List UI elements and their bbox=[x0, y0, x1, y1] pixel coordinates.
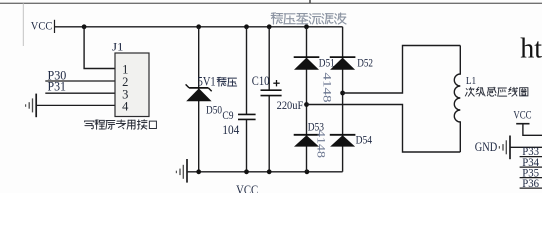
node dot rail/D53 bottom bbox=[305, 169, 310, 174]
ground (left of J1) bbox=[26, 94, 37, 118]
svg-text:104: 104 bbox=[222, 123, 240, 137]
node dot rail/D50 bottom bbox=[196, 169, 201, 174]
inductor L1 coil bbox=[454, 46, 460, 153]
wire D50 branch bbox=[198, 27, 200, 172]
svg-text:C9: C9 bbox=[222, 108, 233, 122]
node dot rail/C10 bottom bbox=[267, 169, 272, 174]
svg-text:GND: GND bbox=[475, 140, 498, 154]
svg-text:4: 4 bbox=[122, 100, 129, 114]
wire VCC top rail bbox=[55, 26, 343, 28]
bottom rail wire bbox=[187, 171, 343, 173]
svg-text:D54: D54 bbox=[356, 133, 373, 147]
svg-text:VCC: VCC bbox=[236, 182, 258, 193]
section title 稳压整流滤波 (gray) bbox=[271, 13, 346, 24]
border frame (decorative, top of crop) bbox=[0, 3, 542, 4]
connector J1 bbox=[115, 53, 149, 117]
diode D53 bbox=[294, 135, 320, 147]
wire D52 branch bbox=[342, 27, 344, 172]
node dot bridge out (D52) bbox=[340, 91, 345, 96]
wire P34 bbox=[520, 166, 542, 168]
svg-text:VCC: VCC bbox=[31, 18, 53, 32]
node dot rail/D51 bbox=[304, 24, 309, 29]
wire P30 to J1 pin 2 bbox=[45, 80, 115, 82]
wire P33 bbox=[520, 156, 542, 158]
diode D51 bbox=[294, 57, 320, 70]
svg-text:4148: 4148 bbox=[315, 130, 329, 158]
diode D52 bbox=[330, 57, 356, 70]
svg-text:C10: C10 bbox=[252, 74, 270, 88]
svg-text:220uF: 220uF bbox=[277, 98, 304, 112]
wire P36 bbox=[520, 187, 542, 189]
svg-text:5V1: 5V1 bbox=[198, 75, 216, 89]
wire ground to J1 pin 4 bbox=[36, 104, 115, 106]
node dot rail/C9 bbox=[244, 24, 249, 29]
ground (bottom rail) bbox=[176, 159, 187, 183]
wire bridge to coil bottom bbox=[307, 105, 461, 153]
node dot VCC/J1 bbox=[82, 24, 87, 29]
svg-text:P31: P31 bbox=[48, 79, 67, 93]
caption 写程序专用接口 bbox=[85, 120, 157, 130]
wire C9 branch (bottom) bbox=[246, 120, 248, 172]
wire P31 to J1 pin 3 bbox=[45, 92, 115, 94]
svg-text:VCC: VCC bbox=[513, 108, 531, 122]
diode D54 bbox=[330, 135, 356, 147]
L1 label 次级感应线圈 bbox=[465, 87, 528, 96]
capacitor C10 (polarized) bbox=[261, 90, 282, 95]
node dot bridge out (D51) bbox=[304, 102, 309, 107]
wire D51 branch bbox=[306, 27, 308, 172]
svg-text:L1: L1 bbox=[466, 76, 476, 87]
svg-text:D50: D50 bbox=[206, 104, 222, 116]
node dot rail/C9 bottom bbox=[244, 169, 249, 174]
node dot rail/D50 bbox=[196, 24, 201, 29]
svg-text:http: http bbox=[520, 34, 542, 65]
svg-text:D52: D52 bbox=[357, 56, 373, 70]
wire C10 branch (top) bbox=[268, 27, 270, 90]
svg-text:4148: 4148 bbox=[321, 73, 335, 103]
wire bridge to coil top bbox=[343, 46, 461, 94]
wire VCC to J1 pin 1 bbox=[84, 27, 115, 69]
VCC port bar bbox=[54, 20, 56, 33]
C10 plus sign bbox=[273, 80, 279, 86]
wire P35 bbox=[520, 177, 542, 179]
wire C9 branch (top) bbox=[246, 27, 248, 115]
wire C10 branch (bottom) bbox=[268, 96, 270, 172]
svg-text:J1: J1 bbox=[112, 40, 124, 54]
capacitor C9 bbox=[238, 114, 256, 119]
node dot rail/C10 bbox=[267, 24, 272, 29]
zener diode D50 bbox=[186, 84, 212, 101]
ground (right) bbox=[499, 136, 542, 160]
